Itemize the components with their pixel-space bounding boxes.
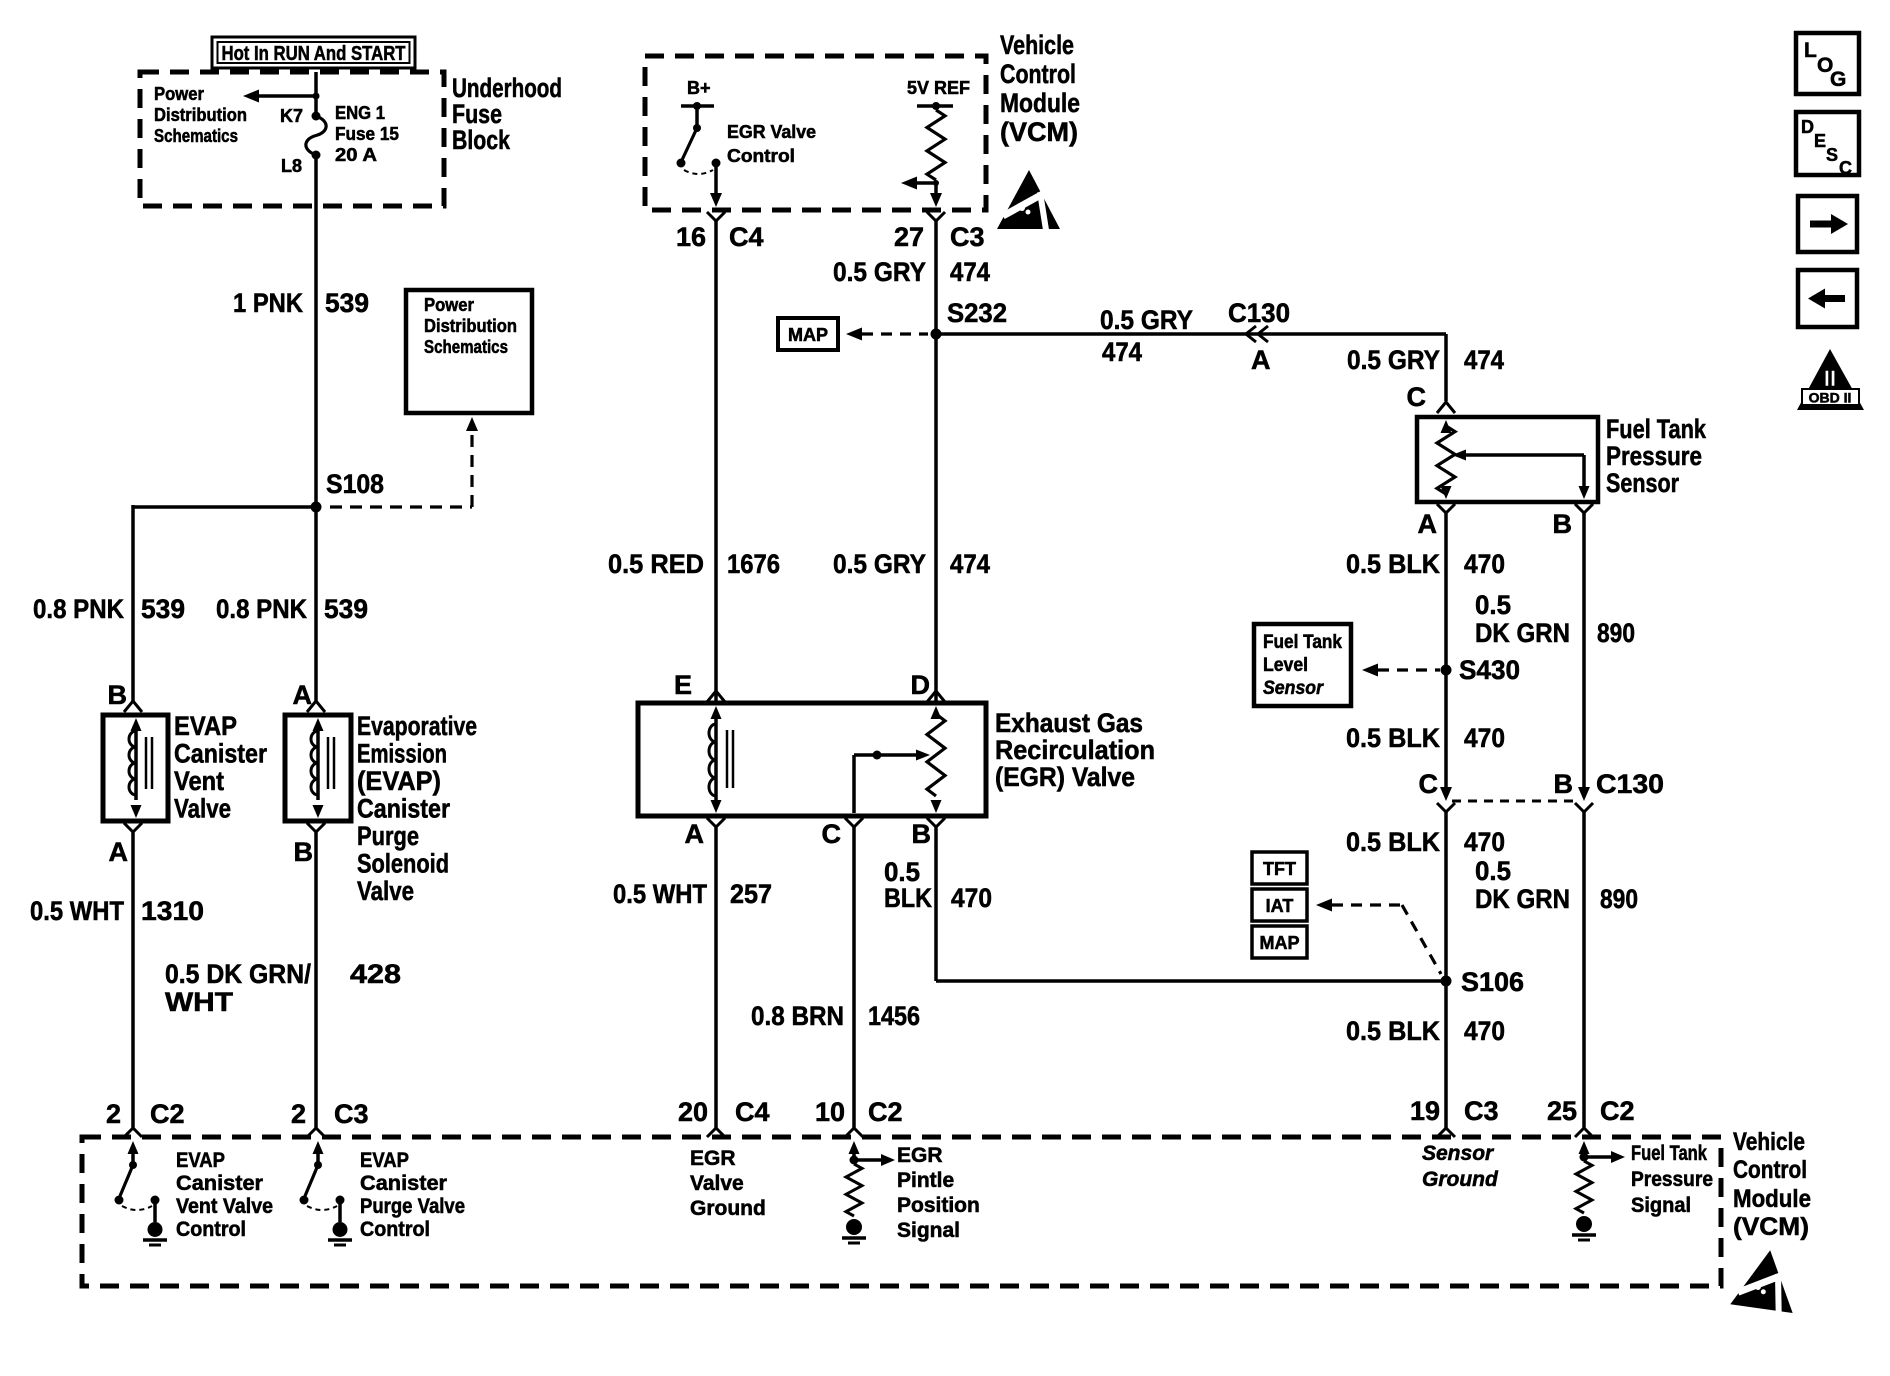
svg-text:Fuel Tank: Fuel Tank xyxy=(1263,632,1342,653)
svg-text:Control: Control xyxy=(1733,1156,1807,1184)
wire 0.5 DK GRN/WHT 428 xyxy=(314,832,318,1128)
svg-text:0.5: 0.5 xyxy=(1475,590,1511,620)
icon DESC button xyxy=(1796,112,1859,175)
svg-text:Power: Power xyxy=(154,84,204,104)
svg-text:WHT: WHT xyxy=(165,987,234,1017)
svg-text:C3: C3 xyxy=(334,1099,369,1129)
svg-text:EGR: EGR xyxy=(897,1144,943,1167)
svg-text:0.5 BLK: 0.5 BLK xyxy=(1346,723,1440,753)
svg-text:C4: C4 xyxy=(735,1097,770,1127)
svg-text:0.5 RED: 0.5 RED xyxy=(608,549,704,579)
svg-text:19: 19 xyxy=(1410,1096,1440,1126)
dashed arrow S430 to fuel tank level sensor xyxy=(1378,668,1440,671)
svg-text:G: G xyxy=(1830,68,1846,91)
connector C130 lower (pins C and B) xyxy=(1440,787,1452,801)
svg-text:Purge: Purge xyxy=(357,821,419,851)
svg-text:Fuel Tank: Fuel Tank xyxy=(1606,414,1707,444)
svg-text:Canister: Canister xyxy=(174,739,267,769)
svg-text:Fuse 15: Fuse 15 xyxy=(335,124,399,144)
wire 0.5 DK GRN 890 FTP-B to C130 xyxy=(1582,513,1586,790)
svg-text:0.8 BRN: 0.8 BRN xyxy=(751,1001,844,1031)
svg-text:C3: C3 xyxy=(1464,1096,1499,1126)
arrow EGR valve control to pin 16 xyxy=(710,193,722,207)
svg-text:27: 27 xyxy=(894,222,924,252)
svg-text:BLK: BLK xyxy=(884,883,932,913)
svg-text:C2: C2 xyxy=(868,1097,903,1127)
svg-text:(VCM): (VCM) xyxy=(1000,117,1078,147)
svg-text:470: 470 xyxy=(1464,827,1505,857)
svg-text:C130: C130 xyxy=(1228,298,1290,328)
svg-text:539: 539 xyxy=(325,288,369,318)
svg-text:Schematics: Schematics xyxy=(154,126,238,146)
svg-text:Control: Control xyxy=(727,146,795,166)
svg-text:474: 474 xyxy=(1464,345,1504,375)
switch EVAP canister vent valve control driver xyxy=(128,1141,139,1154)
svg-text:DK GRN: DK GRN xyxy=(1475,618,1570,648)
svg-text:470: 470 xyxy=(951,883,992,913)
svg-text:A: A xyxy=(293,680,313,710)
wire 0.5 GRY 474 S232 to C130 xyxy=(936,332,1446,336)
svg-text:C2: C2 xyxy=(1600,1096,1635,1126)
svg-text:0.5 BLK: 0.5 BLK xyxy=(1346,827,1440,857)
EGR potentiometer wiper xyxy=(852,755,856,813)
svg-text:0.5: 0.5 xyxy=(1475,856,1511,886)
wire 0.5 BLK 470 C130 to S106 xyxy=(1444,812,1448,1128)
vehicle control module dashed box (bottom) xyxy=(82,1137,1721,1286)
svg-text:L8: L8 xyxy=(281,156,302,176)
wire 0.5 WHT 257 to pin 20 xyxy=(714,827,718,1128)
net B+ feed bar xyxy=(681,104,714,108)
svg-text:Vehicle: Vehicle xyxy=(1733,1128,1805,1156)
svg-text:890: 890 xyxy=(1597,618,1635,648)
svg-text:C3: C3 xyxy=(950,222,985,252)
svg-text:0.5 GRY: 0.5 GRY xyxy=(833,549,926,579)
svg-text:0.5 DK GRN/: 0.5 DK GRN/ xyxy=(165,959,311,989)
svg-text:D: D xyxy=(1801,117,1814,137)
wire 0.8 BRN 1456 to pin 10 xyxy=(852,827,856,1128)
svg-text:C: C xyxy=(1839,158,1852,178)
svg-text:DK GRN: DK GRN xyxy=(1475,884,1570,914)
svg-text:0.5 WHT: 0.5 WHT xyxy=(613,879,707,909)
svg-text:Canister: Canister xyxy=(360,1172,447,1195)
label Hot In RUN And START xyxy=(212,37,415,68)
svg-text:474: 474 xyxy=(950,257,990,287)
svg-text:1456: 1456 xyxy=(868,1001,920,1031)
svg-text:1 PNK: 1 PNK xyxy=(233,288,303,318)
svg-text:S430: S430 xyxy=(1459,655,1520,685)
svg-text:0.5 GRY: 0.5 GRY xyxy=(1347,345,1440,375)
resistor fuel tank pressure input xyxy=(1576,1161,1592,1213)
inline connector C130 pin A chevrons xyxy=(1246,326,1256,342)
svg-text:EGR Valve: EGR Valve xyxy=(727,122,816,142)
svg-text:A: A xyxy=(109,837,129,867)
resistor EGR pintle input xyxy=(846,1164,862,1216)
node S108 xyxy=(311,502,322,513)
svg-text:EVAP: EVAP xyxy=(360,1149,409,1172)
svg-text:E: E xyxy=(1814,131,1826,151)
solenoid EVAP canister purge valve xyxy=(285,715,351,821)
svg-text:C130: C130 xyxy=(1596,769,1664,799)
svg-text:2: 2 xyxy=(291,1099,306,1129)
svg-text:B: B xyxy=(294,837,314,867)
svg-text:1310: 1310 xyxy=(141,896,204,926)
reference box Fuel Tank Level Sensor xyxy=(1254,624,1351,706)
FTP sensor wiper xyxy=(1452,450,1466,461)
vehicle control module dashed box (top) xyxy=(645,56,986,210)
EGR valve solenoid coil xyxy=(711,706,722,719)
icon prev-page arrow button xyxy=(1798,270,1857,327)
svg-text:2: 2 xyxy=(106,1099,121,1129)
icon next-page arrow button xyxy=(1798,196,1857,252)
svg-text:0.8 PNK: 0.8 PNK xyxy=(216,594,307,624)
ground EVAP purge valve driver xyxy=(333,1222,348,1237)
svg-text:Sensor: Sensor xyxy=(1263,678,1324,699)
svg-text:Evaporative: Evaporative xyxy=(357,711,477,741)
svg-text:474: 474 xyxy=(950,549,990,579)
wire 0.5 DK GRN 890 C130 to pin 25 xyxy=(1582,812,1586,1128)
svg-text:Distribution: Distribution xyxy=(154,105,247,125)
power distribution schematics reference box xyxy=(406,290,532,413)
svg-text:OBD II: OBD II xyxy=(1809,390,1852,406)
node S232 xyxy=(931,329,942,340)
svg-text:A: A xyxy=(685,819,705,849)
svg-text:Module: Module xyxy=(1000,88,1080,118)
svg-text:Module: Module xyxy=(1733,1185,1811,1213)
svg-text:B: B xyxy=(1554,769,1574,799)
solenoid EVAP canister vent valve xyxy=(103,715,168,821)
underhood fuse block dashed box xyxy=(140,72,444,206)
svg-text:428: 428 xyxy=(350,959,401,989)
svg-text:C: C xyxy=(822,819,842,849)
wire 0.5 WHT 1310 xyxy=(131,832,135,1128)
svg-text:Recirculation: Recirculation xyxy=(995,735,1155,765)
svg-text:0.5 GRY: 0.5 GRY xyxy=(1100,305,1193,335)
svg-text:Valve: Valve xyxy=(690,1172,744,1195)
dashed arrow S232 to MAP xyxy=(862,332,928,335)
wire 0.5 RED 1676 to EGR pin E xyxy=(714,221,718,701)
FTP sensor potentiometer xyxy=(1441,420,1452,433)
svg-text:257: 257 xyxy=(730,879,772,909)
svg-text:Level: Level xyxy=(1263,655,1308,676)
svg-text:Ground: Ground xyxy=(690,1197,766,1220)
wire from fuse block top to fuse K7 xyxy=(314,72,318,116)
svg-text:K7: K7 xyxy=(280,106,303,126)
svg-text:Vent: Vent xyxy=(174,766,224,796)
fuse F15 ENG 1 20A xyxy=(312,112,321,121)
svg-text:C: C xyxy=(1407,382,1427,412)
svg-text:(EVAP): (EVAP) xyxy=(357,766,441,796)
svg-text:0.5 BLK: 0.5 BLK xyxy=(1346,549,1440,579)
svg-text:EVAP: EVAP xyxy=(176,1149,225,1172)
svg-text:A: A xyxy=(1418,509,1438,539)
reference box MAP (top) xyxy=(778,318,838,350)
wire 0.5 GRY 474 pin27 to S232 xyxy=(934,221,938,334)
wire 0.5 GRY 474 down to FTP sensor xyxy=(1444,334,1448,401)
svg-text:S106: S106 xyxy=(1461,967,1524,997)
wire 0.5 BLK 470 FTP-A to C130 xyxy=(1444,513,1448,790)
svg-text:0.8 PNK: 0.8 PNK xyxy=(33,594,124,624)
svg-text:B: B xyxy=(1553,509,1573,539)
EGR pintle position signal input xyxy=(849,1141,860,1154)
switch EGR valve control driver xyxy=(695,106,699,126)
svg-text:Position: Position xyxy=(897,1194,980,1217)
svg-text:Block: Block xyxy=(452,125,511,155)
svg-text:539: 539 xyxy=(324,594,368,624)
wire 0.8 PNK 539 down to vent valve xyxy=(131,505,135,701)
svg-text:1676: 1676 xyxy=(727,549,780,579)
resistor 5V REF pull-up xyxy=(927,110,945,180)
svg-text:0.5 GRY: 0.5 GRY xyxy=(833,257,926,287)
svg-text:25: 25 xyxy=(1547,1096,1577,1126)
svg-text:Power: Power xyxy=(424,295,474,315)
svg-text:Canister: Canister xyxy=(357,794,450,824)
svg-text:16: 16 xyxy=(676,222,706,252)
svg-text:Schematics: Schematics xyxy=(424,337,508,357)
ground EGR pintle input xyxy=(846,1219,862,1235)
svg-text:539: 539 xyxy=(141,594,185,624)
wire 0.5 BLK 470 EGR pin B to S106 xyxy=(934,827,938,981)
svg-text:10: 10 xyxy=(815,1097,845,1127)
svg-text:EGR: EGR xyxy=(690,1147,736,1170)
svg-text:Sensor: Sensor xyxy=(1606,468,1679,498)
svg-text:Hot In RUN And START: Hot In RUN And START xyxy=(222,43,406,65)
svg-text:IAT: IAT xyxy=(1266,896,1294,916)
svg-text:EVAP: EVAP xyxy=(174,711,237,741)
icon LOG button xyxy=(1796,33,1859,94)
ESD symbol top xyxy=(997,170,1060,230)
svg-text:S108: S108 xyxy=(326,469,384,499)
svg-text:S: S xyxy=(1826,145,1838,165)
svg-text:470: 470 xyxy=(1464,723,1505,753)
node S430 xyxy=(1441,665,1452,676)
svg-text:TFT: TFT xyxy=(1263,859,1296,879)
ground fuel tank pressure input xyxy=(1576,1216,1592,1232)
reference box TFT xyxy=(1252,852,1307,884)
svg-text:Distribution: Distribution xyxy=(424,316,517,336)
net 5V REF bar xyxy=(917,104,953,108)
wire S108 branch left xyxy=(133,505,318,509)
svg-text:Emission: Emission xyxy=(357,739,447,769)
node S106 xyxy=(1441,976,1452,987)
svg-text:B+: B+ xyxy=(687,78,711,98)
svg-text:MAP: MAP xyxy=(1260,933,1300,953)
svg-text:Signal: Signal xyxy=(897,1219,960,1242)
svg-text:Solenoid: Solenoid xyxy=(357,849,449,879)
svg-text:Pressure: Pressure xyxy=(1631,1168,1713,1191)
svg-text:Control: Control xyxy=(176,1218,246,1241)
svg-text:Control: Control xyxy=(360,1218,430,1241)
fuel tank pressure signal input xyxy=(1579,1141,1590,1154)
wire S232 to EGR pin D xyxy=(934,334,938,701)
svg-text:II: II xyxy=(1824,366,1836,391)
svg-text:MAP: MAP xyxy=(788,325,828,345)
icon OBD II triangle xyxy=(1797,349,1864,410)
svg-text:470: 470 xyxy=(1464,549,1505,579)
svg-text:5V REF: 5V REF xyxy=(907,78,970,98)
dashed arrow S106 to IAT xyxy=(1332,903,1402,906)
svg-text:A: A xyxy=(1251,345,1271,375)
svg-text:ENG 1: ENG 1 xyxy=(335,103,385,123)
svg-text:Ground: Ground xyxy=(1422,1168,1499,1191)
svg-text:(VCM): (VCM) xyxy=(1733,1213,1809,1241)
svg-text:890: 890 xyxy=(1600,884,1638,914)
svg-text:Pintle: Pintle xyxy=(897,1169,954,1192)
svg-text:0.5 BLK: 0.5 BLK xyxy=(1346,1016,1440,1046)
svg-text:Valve: Valve xyxy=(174,794,231,824)
dashed arrow from S108 to power distribution box xyxy=(330,505,472,508)
svg-text:Purge Valve: Purge Valve xyxy=(360,1195,465,1218)
svg-text:Sensor: Sensor xyxy=(1422,1142,1495,1165)
svg-text:Signal: Signal xyxy=(1631,1194,1691,1217)
svg-text:L: L xyxy=(1804,39,1817,62)
svg-text:Canister: Canister xyxy=(176,1172,263,1195)
ESD symbol bottom xyxy=(1730,1246,1801,1314)
svg-text:E: E xyxy=(674,670,692,700)
svg-text:470: 470 xyxy=(1464,1016,1505,1046)
wire 5V REF to pin 27 xyxy=(934,183,938,198)
wire 0.8 PNK 539 down to purge valve xyxy=(314,507,318,701)
svg-text:Valve: Valve xyxy=(357,876,414,906)
svg-text:C4: C4 xyxy=(729,222,764,252)
EGR pintle position potentiometer xyxy=(931,706,942,719)
svg-text:20 A: 20 A xyxy=(335,145,377,165)
svg-text:Vehicle: Vehicle xyxy=(1000,30,1074,60)
arrow to power distribution schematics xyxy=(252,94,316,98)
svg-text:D: D xyxy=(911,670,931,700)
arrow 5V REF sense (left) xyxy=(910,181,936,185)
svg-text:Vent Valve: Vent Valve xyxy=(176,1195,273,1218)
svg-text:S232: S232 xyxy=(947,298,1007,328)
svg-text:C2: C2 xyxy=(150,1099,185,1129)
reference box IAT xyxy=(1252,889,1307,921)
fuel tank pressure sensor box xyxy=(1417,417,1598,502)
ground EVAP vent valve driver xyxy=(148,1222,163,1237)
svg-text:(EGR) Valve: (EGR) Valve xyxy=(995,762,1135,792)
svg-text:C: C xyxy=(1419,769,1439,799)
svg-text:0.5 WHT: 0.5 WHT xyxy=(30,896,124,926)
switch EVAP canister purge valve control driver xyxy=(313,1141,324,1154)
svg-text:Fuel Tank: Fuel Tank xyxy=(1631,1142,1707,1165)
svg-text:B: B xyxy=(108,680,128,710)
svg-text:Pressure: Pressure xyxy=(1606,441,1702,471)
reference box MAP (lower) xyxy=(1252,926,1307,958)
svg-text:Exhaust Gas: Exhaust Gas xyxy=(995,708,1143,738)
svg-text:474: 474 xyxy=(1102,337,1142,367)
EGR valve box xyxy=(638,703,986,816)
svg-text:Control: Control xyxy=(1000,59,1076,89)
svg-text:B: B xyxy=(912,819,932,849)
wire PNK 539 from fuse to S108 xyxy=(314,155,318,509)
svg-text:20: 20 xyxy=(678,1097,708,1127)
